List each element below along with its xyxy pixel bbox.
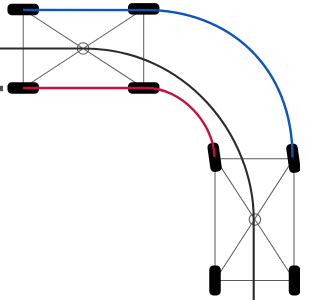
car2 wheel front-right (steered) [286,143,301,173]
car2 diagonal FL-RR [216,159,295,281]
car1 diagonal TL-BR [23,10,144,89]
car2 rear axle (y=279) [215,280,295,282]
car2 diagonal FR-RL [215,159,294,281]
car2 right side line [293,159,295,281]
black center path [0,49,254,300]
car2 wheel rear-left [209,266,221,296]
car1 diagonal BL-TR [23,9,144,88]
car 1 (top-left, horizontal) frame lines [23,9,144,88]
car2 center circle [249,214,260,225]
car1 wheel rear-right (bottom right) [128,82,160,94]
car1 front axle (left, x=23) [22,10,24,89]
small left-edge mark [0,86,3,91]
car2 front axle (y=158.5) [216,158,294,160]
red inner wheel path [23,88,214,157]
car2 wheel rear-right [289,266,301,296]
car1 center circle [77,43,88,54]
car1 wheel front-right (bottom left) [7,82,39,94]
car2 wheel front-left (steered) [207,142,222,172]
car 2 (bottom-right, vertical) frame lines [215,159,295,281]
car1 rear axle (right, x=143.7) [143,9,145,88]
car1 wheel rear-left (top right wheel) [128,3,160,15]
car2 left side line [214,159,216,281]
car1 wheel front-left [7,4,39,16]
blue outer wheel path [23,10,293,158]
